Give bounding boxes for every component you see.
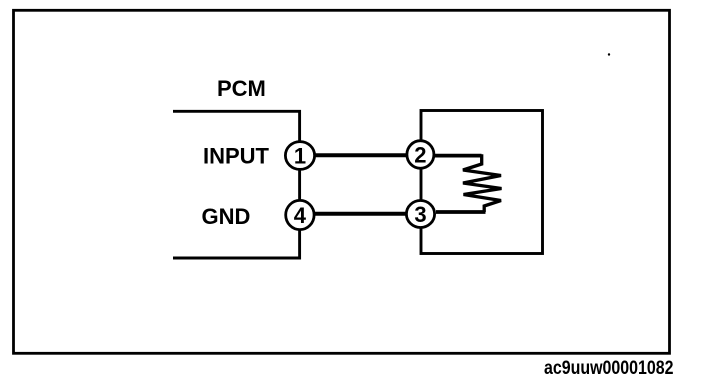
svg-text:INPUT: INPUT	[203, 144, 270, 169]
svg-text:GND: GND	[202, 204, 251, 229]
svg-text:PCM: PCM	[217, 76, 266, 101]
speck	[608, 53, 610, 55]
svg-text:4: 4	[294, 203, 307, 228]
wire pin4 to pin3	[300, 212, 420, 216]
PCM connector outline	[173, 111, 300, 258]
svg-text:1: 1	[294, 144, 306, 169]
wire pin1 to pin2	[300, 153, 420, 157]
pin 4	[286, 200, 314, 229]
pin 1	[285, 142, 314, 170]
resistor R1	[463, 154, 502, 212]
sensor box	[421, 111, 543, 254]
wire resistor bottom to pin3	[436, 210, 486, 214]
pin 2	[407, 141, 434, 169]
svg-text:ac9uuw00001082: ac9uuw00001082	[544, 357, 674, 378]
svg-text:3: 3	[414, 202, 426, 227]
wire pin2 to resistor top	[435, 154, 482, 158]
pin 3	[406, 201, 434, 228]
svg-text:2: 2	[414, 143, 426, 168]
